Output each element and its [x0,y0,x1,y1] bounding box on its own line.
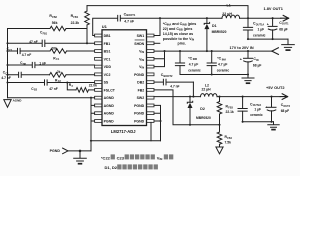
capacitor COUT1A 1uF ceramic [243,18,265,39]
wire AGND bus down [91,98,95,151]
wire VC2 comp row [8,74,95,76]
capacitor CBOOT2 [154,73,193,88]
wire VDD row [8,64,95,66]
capacitor CC2 4.7nF [1,71,21,81]
svg-text:+: + [267,23,269,27]
svg-text:AGND: AGND [104,104,115,108]
svg-text:ceramic: ceramic [253,33,266,37]
svg-text:1 µF: 1 µF [258,28,265,32]
svg-text:OUT1: OUT1 [282,23,289,26]
IC U1 LM2717-ADJ [95,24,154,134]
resistor RFB4 7.5k [217,132,232,147]
svg-text:47 nF: 47 nF [49,87,58,91]
node VOUT2 arrow [280,94,287,100]
svg-text:4.7 µF: 4.7 µF [189,62,198,66]
svg-text:22 µH: 22 µH [222,12,232,16]
wire FB2 to divider [154,90,220,125]
svg-text:BOOT1: BOOT1 [126,13,135,17]
capacitor CINB 4.7uF ceramic [175,51,200,74]
wire AGND row [8,97,95,99]
resistor RFB2 56k [8,14,88,31]
svg-text:SHDN: SHDN [134,42,144,46]
svg-text:22) and CBB (pins: 22) and CBB (pins [163,27,193,32]
svg-text:*CINA and CINB (pins: *CINA and CINB (pins [163,22,197,27]
svg-text:VIN: VIN [139,50,144,55]
svg-text:DB2: DB2 [137,81,144,85]
svg-text:20k: 20k [51,47,57,51]
svg-text:22.1k: 22.1k [226,110,234,114]
wire CBOOT2 riser to SW2 node [192,82,194,97]
svg-text:4.7 nF: 4.7 nF [124,19,134,23]
svg-text:1 nF: 1 nF [39,61,46,65]
capacitor CDD 1nF [20,61,46,68]
svg-text:IN: IN [160,157,163,161]
svg-text:4.7 nF: 4.7 nF [170,84,179,88]
svg-text:BOOT2: BOOT2 [164,74,173,78]
svg-text:SW2: SW2 [137,96,145,100]
svg-text:AGND: AGND [104,112,115,116]
diode D1 MBR0520 [204,17,226,51]
wire upper ground line [91,140,161,142]
svg-text:MBR0520: MBR0520 [212,30,227,34]
svg-text:PGND: PGND [134,73,145,77]
svg-text:ceramic: ceramic [217,69,230,73]
wire VC1 comp row [8,50,95,52]
svg-text:1 µF: 1 µF [254,108,261,112]
svg-text:4.7 nF: 4.7 nF [22,53,32,57]
svg-text:17V to 20V IN: 17V to 20V IN [230,46,254,50]
svg-text:56k: 56k [52,21,58,25]
svg-text:INA: INA [222,58,227,61]
svg-text:pins.: pins. [178,41,186,45]
ground (earth) output1 [282,39,295,47]
wire input ground rail [180,74,248,76]
capacitor CFB1 47nF [29,31,48,47]
svg-text:FB1: FB1 [73,16,78,19]
wire SS row [8,82,95,84]
svg-text:+: + [265,106,267,110]
svg-text:*C22: *C22 [101,155,111,160]
svg-text:ceramic: ceramic [250,113,263,117]
svg-text:2k: 2k [57,70,61,74]
svg-text:OUT2: OUT2 [283,105,290,108]
ground (earth) PGND [74,151,87,161]
node VOUT1 arrow [281,15,289,21]
wire VIN rail [154,50,272,52]
capacitor CC1 4.7nF [7,47,32,57]
svg-text:D1, D2: D1, D2 [105,165,118,170]
svg-text:PGND: PGND [134,112,145,116]
svg-text:FB2: FB2 [52,16,57,19]
inductor L2 22uH [201,84,218,97]
svg-text:DD: DD [23,63,27,66]
svg-text:PGND: PGND [134,104,145,108]
ground (earth) input [242,75,254,81]
svg-text:PGND: PGND [134,120,145,124]
capacitor COUT2A 1uF ceramic [238,96,263,122]
wire DB1 to CBOOT1 [93,18,117,35]
svg-text:68 µF: 68 µF [281,109,290,113]
svg-text:+: + [240,57,243,61]
svg-text:7.5k: 7.5k [225,140,232,144]
svg-text:PGND: PGND [50,149,61,153]
svg-text:FB3: FB3 [228,106,233,109]
svg-text:IN: IN [256,59,259,62]
svg-text:FB1: FB1 [104,42,111,46]
note text block [163,22,197,45]
svg-text:FSLCT: FSLCT [104,88,116,92]
svg-text:OUT1A: OUT1A [256,23,265,26]
svg-text:AGND: AGND [104,96,115,100]
wire left rail [7,29,9,98]
svg-text:VIN: VIN [139,65,144,70]
svg-text:VIN: VIN [139,57,144,62]
wire L2 to output2 [217,96,280,98]
svg-text:C1: C1 [56,58,60,61]
svg-text:D1: D1 [212,24,217,28]
capacitor CIN 68uF [240,51,262,74]
svg-text:22.3k: 22.3k [71,21,80,25]
svg-text:SS: SS [104,81,109,85]
resistor RFB1 22.3k [71,6,90,44]
capacitor CINA 4.7uF ceramic [207,51,229,74]
svg-text:68 µF: 68 µF [279,28,288,32]
svg-text:47 nF: 47 nF [29,40,38,44]
svg-text:LM2717-ADJ: LM2717-ADJ [111,129,136,134]
diode D2 MBR0520 [187,96,211,126]
capacitor COUT2 68uF [265,96,291,122]
svg-text:22 µH: 22 µH [202,88,212,92]
wire SHDN stub [154,42,160,44]
svg-text:C23: C23 [117,155,125,160]
svg-text:BS1: BS1 [104,50,111,54]
svg-text:VC1: VC1 [104,57,111,61]
wire SW1 pin riser [154,18,160,35]
svg-text:SS: SS [34,89,38,92]
wire L1 to output [240,17,281,19]
wire VIN pins bus [154,51,165,67]
svg-text:4.7 µF: 4.7 µF [218,62,227,66]
svg-text:FB1: FB1 [43,32,48,35]
node PGND terminal [50,148,68,154]
node input arrow 17V-20V IN [272,48,279,55]
wire PGND bus [154,105,161,140]
capacitor CSS 47nF [31,80,58,92]
svg-text:AGND: AGND [13,98,23,102]
svg-text:F: F [72,85,74,88]
svg-text:1.8V OUT1: 1.8V OUT1 [264,6,284,11]
wire output2 ground rail [243,121,274,123]
svg-text:14,15) as close as: 14,15) as close as [163,32,193,36]
svg-text:U1: U1 [102,24,108,29]
capacitor CBOOT1 [118,12,136,23]
note text chinese line2 [105,164,158,170]
svg-text:68 µF: 68 µF [253,64,262,68]
wire SW1 node line [121,17,222,19]
wire ground line [68,150,91,152]
capacitor COUT1 68uF [267,18,289,39]
svg-text:FB2: FB2 [138,88,145,92]
svg-text:4.7 nF: 4.7 nF [1,76,11,80]
wire SW2 line [154,96,201,98]
resistor RC1 20k [50,47,67,62]
svg-text:22.0k: 22.0k [89,84,97,88]
inductor L1 22uH [222,4,240,19]
ground AGND divider [216,147,223,154]
resistor RF 22.0k to FSLCT [66,81,97,92]
wire PGND pin drop [150,122,152,140]
svg-text:SW1: SW1 [137,34,145,38]
wire FB1 row [8,42,95,44]
svg-text:MBR0520: MBR0520 [196,116,211,120]
svg-text:VDD: VDD [104,65,112,69]
wire feedback sense VOUT1 [87,6,248,19]
svg-text:INB: INB [193,58,198,61]
svg-text:+5V OUT2: +5V OUT2 [266,85,285,90]
svg-text:PGND: PGND [104,120,115,124]
note text chinese line1 [101,154,173,161]
resistor RFB3 22.1k [217,96,234,131]
ground AGND symbol [4,98,22,107]
svg-text:ceramic: ceramic [188,68,201,72]
svg-text:DB1: DB1 [104,34,111,38]
wire output1 ground rail [248,38,288,40]
svg-text:VC2: VC2 [104,73,111,77]
resistor RC2 2k [50,70,67,83]
svg-text:D2: D2 [200,107,205,111]
ground (earth) output2 [268,122,279,127]
